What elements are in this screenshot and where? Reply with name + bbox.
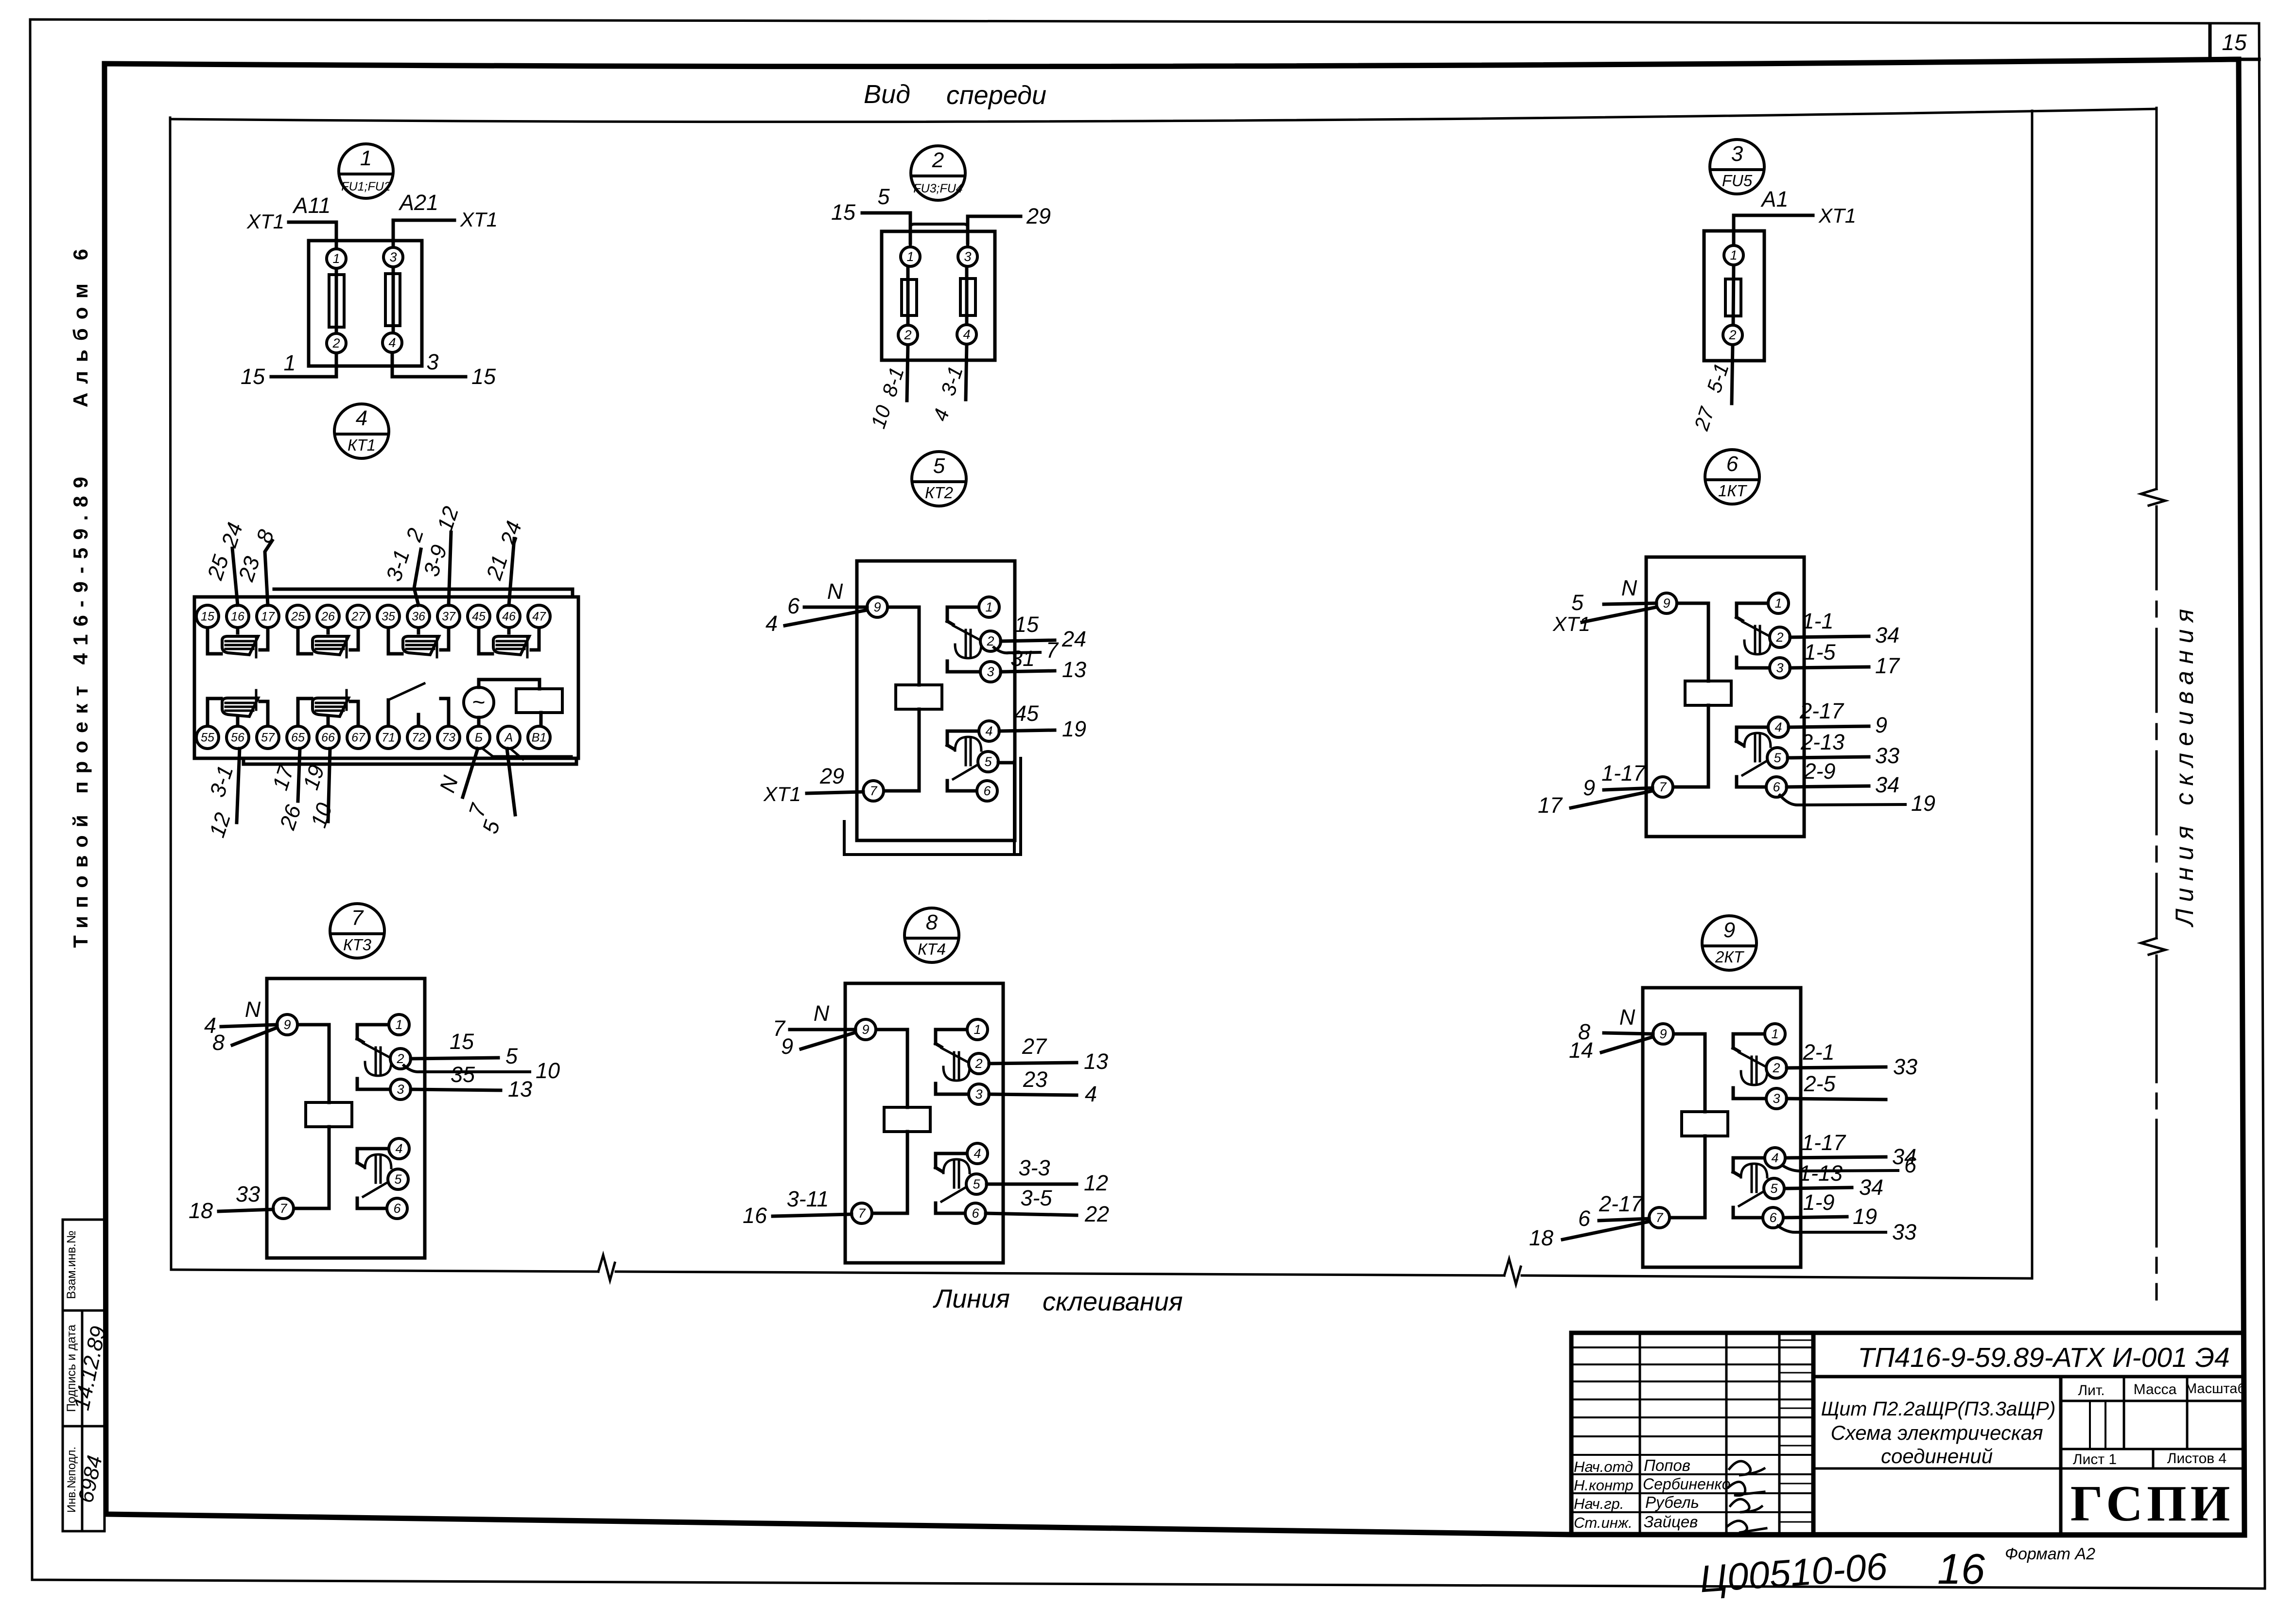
svg-text:9: 9: [1659, 1027, 1667, 1041]
inner frame (glue outline): [170, 109, 2157, 1284]
svg-text:13: 13: [1084, 1049, 1108, 1074]
KT1 wire N below terminal Б: [435, 749, 478, 797]
KT1 wire 3-1,12 below terminal 56: [204, 749, 240, 840]
svg-text:9: 9: [1583, 775, 1595, 800]
svg-text:6: 6: [1773, 780, 1780, 794]
svg-text:9: 9: [1663, 596, 1670, 611]
svg-text:3: 3: [964, 249, 971, 264]
svg-text:16: 16: [231, 610, 244, 624]
svg-text:2: 2: [396, 1051, 404, 1066]
fuse FU3: [902, 266, 917, 325]
svg-text:5: 5: [505, 1044, 518, 1068]
svg-text:N: N: [1621, 576, 1637, 600]
svg-text:5: 5: [394, 1172, 402, 1187]
svg-text:15: 15: [2222, 30, 2247, 55]
KT3 wire 10 from terminal 2: [404, 1058, 560, 1083]
svg-text:5: 5: [973, 1177, 980, 1191]
KT2 wire 45 19 from terminal 4: [999, 701, 1086, 741]
svg-text:спереди: спереди: [946, 81, 1046, 110]
title block frame: [1571, 1333, 2244, 1535]
wire A1 XT1 to terminal 1: [1734, 187, 1856, 245]
svg-text:2-5: 2-5: [1803, 1071, 1836, 1096]
svg-text:27: 27: [1022, 1034, 1047, 1059]
relay KT3 body: [267, 978, 425, 1258]
relay KT2 body: [857, 561, 1015, 840]
svg-text:КТ2: КТ2: [925, 484, 953, 502]
FU1,FU2 terminal 2: [327, 333, 346, 353]
svg-text:Масштаб: Масштаб: [2185, 1381, 2245, 1397]
svg-text:10: 10: [536, 1058, 560, 1083]
relay KT4 body: [845, 983, 1003, 1263]
svg-text:Типовой проект 416-9-59.89: Типовой проект 416-9-59.89: [69, 469, 92, 948]
svg-text:19: 19: [1911, 791, 1935, 816]
svg-text:A1: A1: [1760, 187, 1788, 211]
svg-text:7: 7: [1655, 1210, 1663, 1225]
wire 15-1 from terminal 2: [241, 350, 336, 389]
svg-text:16: 16: [743, 1203, 767, 1228]
wire 5-1 27 from terminal 2: [1689, 345, 1733, 434]
KT1 wire 3-9,12 above terminal 37: [418, 504, 463, 605]
2KT wire 14 to terminal 9: [1569, 1037, 1653, 1063]
svg-text:6: 6: [972, 1206, 979, 1221]
svg-text:1-1: 1-1: [1802, 609, 1833, 633]
KT3 wire 4 N to terminal 9: [204, 997, 277, 1038]
svg-text:72: 72: [412, 731, 425, 745]
svg-text:4: 4: [974, 1146, 981, 1161]
svg-text:А: А: [504, 731, 513, 745]
svg-text:2: 2: [1772, 1061, 1780, 1075]
svg-text:2-9: 2-9: [1803, 759, 1835, 784]
svg-text:Альбом 6: Альбом 6: [69, 240, 92, 407]
svg-text:6: 6: [1726, 452, 1739, 476]
svg-text:66: 66: [321, 731, 335, 745]
title block Лист / Листов: [2061, 1449, 2244, 1468]
stamp value 14.12.89: [69, 1324, 111, 1413]
svg-text:15: 15: [471, 364, 496, 389]
svg-text:9: 9: [873, 600, 881, 614]
svg-text:2: 2: [332, 336, 340, 350]
svg-text:N: N: [245, 997, 261, 1022]
svg-text:6: 6: [393, 1201, 401, 1216]
svg-text:Схема электрическая: Схема электрическая: [1830, 1421, 2043, 1444]
svg-text:КТ4: КТ4: [918, 940, 946, 958]
KT3 wire 8 to terminal 9: [212, 1028, 277, 1055]
svg-text:29: 29: [1026, 204, 1051, 228]
2KT wire 2-1 33 from terminal 2: [1787, 1040, 1917, 1079]
2KT wire 1-9 19 from terminal 6: [1784, 1190, 1877, 1229]
svg-text:17: 17: [1538, 793, 1563, 818]
svg-text:4: 4: [765, 611, 778, 636]
svg-text:34: 34: [1875, 623, 1899, 647]
fuse block FU5 body: [1704, 231, 1764, 361]
KT1 wire 3-1,2 above terminal 36: [381, 525, 428, 605]
svg-text:1: 1: [985, 600, 992, 614]
svg-text:2: 2: [974, 1056, 982, 1071]
glue line (линия склеивания) right dash-dot: [2141, 108, 2165, 1299]
KT2 wire 4 to terminal 9: [765, 610, 867, 636]
svg-text:ГСПИ: ГСПИ: [2070, 1475, 2234, 1532]
1KT wire 19 from terminal 6: [1780, 791, 1935, 816]
svg-text:Нач.отд: Нач.отд: [1574, 1458, 1633, 1475]
KT4 wire 3-5 22 from terminal 6: [986, 1186, 1109, 1226]
FU1,FU2 terminal 3: [383, 247, 403, 267]
signature rows: [1574, 1456, 1730, 1531]
svg-text:17: 17: [1875, 653, 1900, 678]
margin text Типовой проект 416-9-59.89: [69, 469, 92, 948]
svg-text:1: 1: [360, 146, 372, 170]
fuse FU1: [329, 268, 344, 333]
svg-text:2-17: 2-17: [1599, 1191, 1644, 1216]
svg-text:Формат А2: Формат А2: [2005, 1545, 2095, 1563]
svg-text:34: 34: [1875, 772, 1899, 797]
svg-text:57: 57: [261, 731, 275, 745]
svg-text:27: 27: [351, 610, 365, 624]
callout 5 / KT2: [912, 452, 966, 506]
fuse block FU1,FU2 body: [309, 241, 422, 366]
svg-text:18: 18: [189, 1198, 213, 1223]
svg-text:Масса: Масса: [2134, 1381, 2177, 1397]
svg-text:24: 24: [1061, 627, 1086, 651]
KT2 wire 31 13 from terminal 3: [1001, 646, 1086, 682]
svg-text:3-3: 3-3: [1018, 1155, 1050, 1180]
svg-text:2-17: 2-17: [1799, 699, 1844, 723]
svg-text:9: 9: [1723, 918, 1735, 942]
FU3,FU4 terminal 2: [898, 325, 918, 345]
FU5 terminal 2: [1723, 325, 1742, 345]
stamp box Подпись и дата: [63, 1310, 104, 1426]
svg-text:13: 13: [508, 1077, 532, 1101]
svg-text:5: 5: [877, 184, 890, 209]
wire XT1 A11 to terminal 1: [246, 193, 336, 249]
callout 3 / FU5: [1710, 140, 1764, 194]
KT1 wire 21,24 above terminal 46: [481, 518, 526, 605]
2KT wire 2-5 from terminal 3: [1787, 1071, 1886, 1100]
KT1 wire 25,24 above terminal 16: [202, 520, 247, 605]
svg-text:6: 6: [1769, 1210, 1777, 1225]
svg-text:1-17: 1-17: [1601, 761, 1646, 786]
wire 29 to terminal 3: [968, 204, 1051, 243]
svg-text:3: 3: [1731, 142, 1743, 166]
svg-text:2-13: 2-13: [1800, 730, 1844, 754]
wire A21 XT1 to terminal 3: [393, 190, 498, 247]
svg-text:1-13: 1-13: [1799, 1161, 1843, 1186]
label Формат А2: [2005, 1545, 2095, 1563]
KT1 bottom terminals: [196, 726, 550, 749]
svg-text:33: 33: [1875, 743, 1899, 768]
svg-text:47: 47: [532, 610, 546, 624]
svg-text:6: 6: [983, 784, 991, 798]
2KT wire 33 from terminal 6: [1778, 1220, 1916, 1244]
KT2 wire 15 24 from terminal 2: [1001, 612, 1086, 651]
svg-text:2: 2: [1775, 630, 1783, 645]
svg-text:17: 17: [261, 610, 275, 624]
1KT wire 2-13 33 from terminal 5: [1788, 730, 1899, 768]
svg-text:Ст.инж.: Ст.инж.: [1574, 1514, 1633, 1531]
svg-text:4: 4: [388, 335, 396, 350]
FU3,FU4 terminal 4: [957, 325, 976, 344]
svg-text:2: 2: [1728, 328, 1736, 342]
svg-text:7: 7: [1046, 638, 1059, 663]
svg-text:Рубель: Рубель: [1645, 1493, 1699, 1511]
svg-text:4: 4: [963, 327, 970, 342]
fuse FU2: [385, 267, 400, 332]
svg-text:1-17: 1-17: [1802, 1130, 1846, 1155]
callout 4 / KT1: [334, 404, 389, 458]
svg-text:35: 35: [451, 1062, 475, 1087]
svg-text:Сербиненко: Сербиненко: [1643, 1475, 1730, 1493]
svg-text:9: 9: [862, 1022, 869, 1037]
svg-text:1: 1: [906, 249, 914, 264]
svg-text:15: 15: [1014, 612, 1039, 637]
svg-text:1КТ: 1КТ: [1718, 482, 1748, 500]
svg-text:КТ1: КТ1: [348, 436, 376, 454]
label Линия склеивания (bottom): [933, 1284, 1183, 1316]
svg-text:ТП416-9-59.89-АТХ И-001 Э4: ТП416-9-59.89-АТХ И-001 Э4: [1858, 1342, 2229, 1373]
svg-text:В1: В1: [532, 731, 547, 745]
KT2 wire 7 from terminal 2: [994, 638, 1059, 663]
svg-text:7: 7: [1659, 780, 1667, 794]
svg-text:33: 33: [236, 1182, 260, 1206]
callout 8 / KT4: [904, 908, 959, 962]
KT3 wire 15 5 from terminal 2: [411, 1029, 518, 1068]
2KT wire 8 N to terminal 9: [1578, 1005, 1653, 1044]
svg-text:7: 7: [870, 784, 877, 798]
stamp value 6984: [74, 1453, 107, 1505]
page number 15: [2222, 30, 2247, 55]
svg-text:Листов 4: Листов 4: [2167, 1450, 2227, 1467]
svg-text:Н.контр: Н.контр: [1574, 1477, 1634, 1494]
fuse FU5: [1725, 265, 1741, 325]
svg-text:N: N: [814, 1001, 830, 1026]
title Вид спереди: [864, 80, 1046, 110]
svg-text:5: 5: [1770, 1181, 1778, 1196]
svg-text:Линия: Линия: [933, 1284, 1010, 1313]
svg-text:37: 37: [442, 610, 456, 624]
svg-text:7: 7: [858, 1206, 866, 1221]
KT4 wire 23 4 from terminal 3: [989, 1067, 1097, 1106]
1KT wire 1-5 17 from terminal 3: [1790, 640, 1900, 678]
callout 7 / KT3: [330, 904, 384, 958]
svg-text:2-1: 2-1: [1802, 1040, 1834, 1065]
svg-text:Лит.: Лит.: [2078, 1382, 2105, 1398]
svg-text:1: 1: [1730, 248, 1737, 262]
title block description: [1813, 1397, 2061, 1468]
2KT wire 1-17 34 from terminal 4: [1787, 1130, 1916, 1169]
svg-text:1-5: 1-5: [1804, 640, 1836, 664]
handwritten inventory number Ц00510-06: [1698, 1545, 1889, 1601]
svg-text:45: 45: [1014, 701, 1039, 726]
KT1 wire 23,8 above terminal 17: [233, 526, 278, 605]
2KT wire 1-13 34 from terminal 5: [1785, 1161, 1883, 1200]
1KT wire 17 to terminal 7: [1538, 791, 1652, 818]
svg-text:5: 5: [1571, 590, 1584, 615]
svg-text:4: 4: [356, 406, 367, 430]
svg-text:3: 3: [426, 349, 438, 374]
svg-text:29: 29: [819, 764, 844, 788]
svg-text:A21: A21: [398, 190, 438, 215]
svg-text:XT1: XT1: [763, 783, 801, 805]
svg-text:XT1: XT1: [460, 208, 498, 231]
svg-text:6: 6: [1904, 1153, 1917, 1177]
svg-text:19: 19: [1062, 716, 1086, 741]
svg-text:XT1: XT1: [1818, 204, 1856, 227]
KT1 wire 7,5 below terminal А: [464, 749, 515, 837]
svg-text:Щит П2.2аЩР(П3.3аЩР): Щит П2.2аЩР(П3.3аЩР): [1821, 1397, 2056, 1420]
fuse block FU3,FU4 body: [882, 231, 995, 360]
KT2 wire XT1 29 to terminal 7: [763, 764, 863, 805]
svg-text:N: N: [1619, 1005, 1635, 1030]
1KT wire 5 N to terminal 9: [1571, 576, 1656, 615]
KT1 top terminals: [196, 605, 550, 628]
KT3 wire 18 33 to terminal 7: [189, 1182, 273, 1223]
FU1,FU2 terminal 4: [383, 333, 402, 352]
svg-text:3-5: 3-5: [1020, 1186, 1052, 1210]
svg-text:3: 3: [1773, 1091, 1780, 1106]
svg-text:Лист 1: Лист 1: [2073, 1451, 2117, 1467]
svg-text:FU1;FU2: FU1;FU2: [341, 180, 391, 193]
svg-text:2: 2: [932, 148, 944, 172]
svg-text:56: 56: [231, 731, 244, 745]
svg-text:5: 5: [984, 754, 992, 769]
KT2 socket tray: [844, 758, 1021, 855]
svg-text:4: 4: [1771, 1151, 1778, 1165]
svg-text:25: 25: [291, 610, 305, 624]
2KT wire 6 from terminal 4: [1783, 1153, 1917, 1177]
svg-text:Линия склеивания: Линия склеивания: [2171, 602, 2199, 927]
KT2 wire 6 N to terminal 9: [787, 579, 867, 618]
title block doc number: [1813, 1342, 2244, 1377]
1KT wire 2-9 34 from terminal 6: [1787, 759, 1899, 797]
svg-text:1: 1: [332, 251, 340, 266]
margin text Альбом 6: [69, 240, 92, 407]
svg-text:34: 34: [1859, 1175, 1883, 1200]
svg-text:18: 18: [1529, 1225, 1553, 1250]
callout 9 / 2KT: [1702, 916, 1757, 970]
svg-text:соединений: соединений: [1881, 1445, 1993, 1467]
KT1 wire 19,10 below terminal 66: [298, 749, 337, 831]
svg-text:23: 23: [1023, 1067, 1047, 1092]
KT2 wire from terminal 5 to tray: [998, 761, 1014, 765]
svg-text:65: 65: [291, 731, 305, 745]
stamp box Инв.N подл.: [63, 1426, 104, 1531]
svg-text:1: 1: [395, 1017, 402, 1032]
svg-text:1: 1: [1771, 1027, 1778, 1041]
svg-text:5: 5: [933, 454, 945, 478]
svg-text:1: 1: [974, 1022, 981, 1037]
2KT wire 18 to terminal 7: [1529, 1222, 1649, 1250]
svg-text:16: 16: [1937, 1545, 1985, 1593]
1KT wire 2-17 9 from terminal 4: [1789, 699, 1887, 737]
svg-text:15: 15: [450, 1029, 474, 1054]
svg-text:4: 4: [1774, 720, 1782, 734]
svg-text:3: 3: [987, 664, 994, 679]
wire 15-5 to terminal 1: [831, 184, 910, 243]
svg-text:35: 35: [382, 610, 395, 624]
svg-text:Взам.инв.№: Взам.инв.№: [65, 1231, 78, 1299]
svg-text:6: 6: [787, 594, 800, 618]
svg-text:3-11: 3-11: [787, 1187, 829, 1211]
svg-text:3: 3: [397, 1082, 404, 1097]
svg-text:45: 45: [472, 610, 486, 624]
svg-text:19: 19: [1853, 1204, 1877, 1229]
svg-text:~: ~: [472, 689, 486, 715]
svg-text:71: 71: [382, 731, 395, 745]
svg-text:XT1: XT1: [1552, 612, 1590, 635]
svg-text:6: 6: [1578, 1206, 1591, 1231]
svg-text:12: 12: [1084, 1170, 1108, 1195]
svg-text:1-9: 1-9: [1803, 1190, 1834, 1215]
KT4 wire 16 3-11 to terminal 7: [743, 1187, 852, 1228]
callout 1 / FU1;FU2: [339, 144, 393, 198]
callout 6 / 1KT: [1705, 450, 1759, 504]
svg-text:14: 14: [1569, 1038, 1593, 1063]
KT1 wire 17,26 below terminal 65: [267, 749, 306, 833]
svg-text:Инв.№подл.: Инв.№подл.: [65, 1447, 78, 1513]
2KT wire 6 2-17 to terminal 7: [1578, 1191, 1649, 1231]
svg-text:Попов: Попов: [1644, 1456, 1690, 1474]
callout 2 / FU3;FU4: [911, 146, 965, 200]
svg-text:33: 33: [1892, 1220, 1916, 1244]
stamp box Взам.инв.N: [63, 1220, 104, 1310]
svg-text:26: 26: [321, 610, 335, 624]
svg-text:N: N: [827, 579, 843, 604]
svg-text:31: 31: [1010, 646, 1035, 671]
KT1 lower contacts: [208, 690, 358, 724]
svg-text:9: 9: [1875, 713, 1887, 737]
handwritten page 16: [1937, 1545, 1985, 1593]
svg-text:FU5: FU5: [1722, 172, 1753, 190]
svg-text:2: 2: [904, 328, 911, 342]
svg-text:8: 8: [212, 1030, 225, 1055]
KT1 changeover switch 71-73: [388, 683, 449, 724]
svg-text:5: 5: [1774, 751, 1781, 765]
svg-text:7: 7: [351, 906, 364, 930]
svg-text:КТ3: КТ3: [343, 936, 372, 954]
svg-text:9: 9: [781, 1034, 793, 1059]
title block Лит Масса Масштаб: [2061, 1377, 2245, 1535]
FU3,FU4 terminal 1: [901, 247, 920, 266]
1KT wire 1-1 34 from terminal 2: [1790, 609, 1899, 647]
KT4 wire 9 to terminal 9: [781, 1032, 855, 1059]
svg-text:8: 8: [926, 910, 938, 934]
jumper terminal 1 to 3: [910, 224, 968, 248]
label Линия склеивания (vertical): [2171, 602, 2199, 927]
relay KT1 body: [194, 589, 578, 764]
KT4 wire 27 13 from terminal 2: [989, 1034, 1108, 1074]
1KT wire 9 1-17 to terminal 7: [1583, 761, 1652, 800]
relay 1KT body: [1646, 557, 1804, 837]
KT1 motor (~): [464, 687, 494, 724]
svg-text:15: 15: [241, 364, 265, 389]
page number box top-right: [2210, 24, 2259, 59]
relay 2KT body: [1643, 988, 1801, 1267]
svg-text:22: 22: [1084, 1202, 1109, 1226]
svg-text:4: 4: [395, 1141, 402, 1156]
FU1,FU2 terminal 1: [327, 249, 346, 268]
wire 3-1 4 from terminal 4: [928, 344, 967, 424]
svg-text:7: 7: [279, 1201, 287, 1216]
1KT wire XT1 to terminal 9: [1552, 607, 1656, 635]
svg-text:XT1: XT1: [246, 210, 284, 233]
fuse FU4: [960, 266, 975, 325]
svg-text:Вид: Вид: [864, 80, 910, 109]
svg-text:9: 9: [283, 1017, 291, 1032]
svg-text:3: 3: [1776, 661, 1783, 675]
svg-text:Б: Б: [475, 731, 483, 745]
FU3,FU4 terminal 3: [958, 247, 977, 266]
KT1 bottom-right links: [479, 746, 572, 759]
svg-text:4: 4: [985, 724, 992, 738]
